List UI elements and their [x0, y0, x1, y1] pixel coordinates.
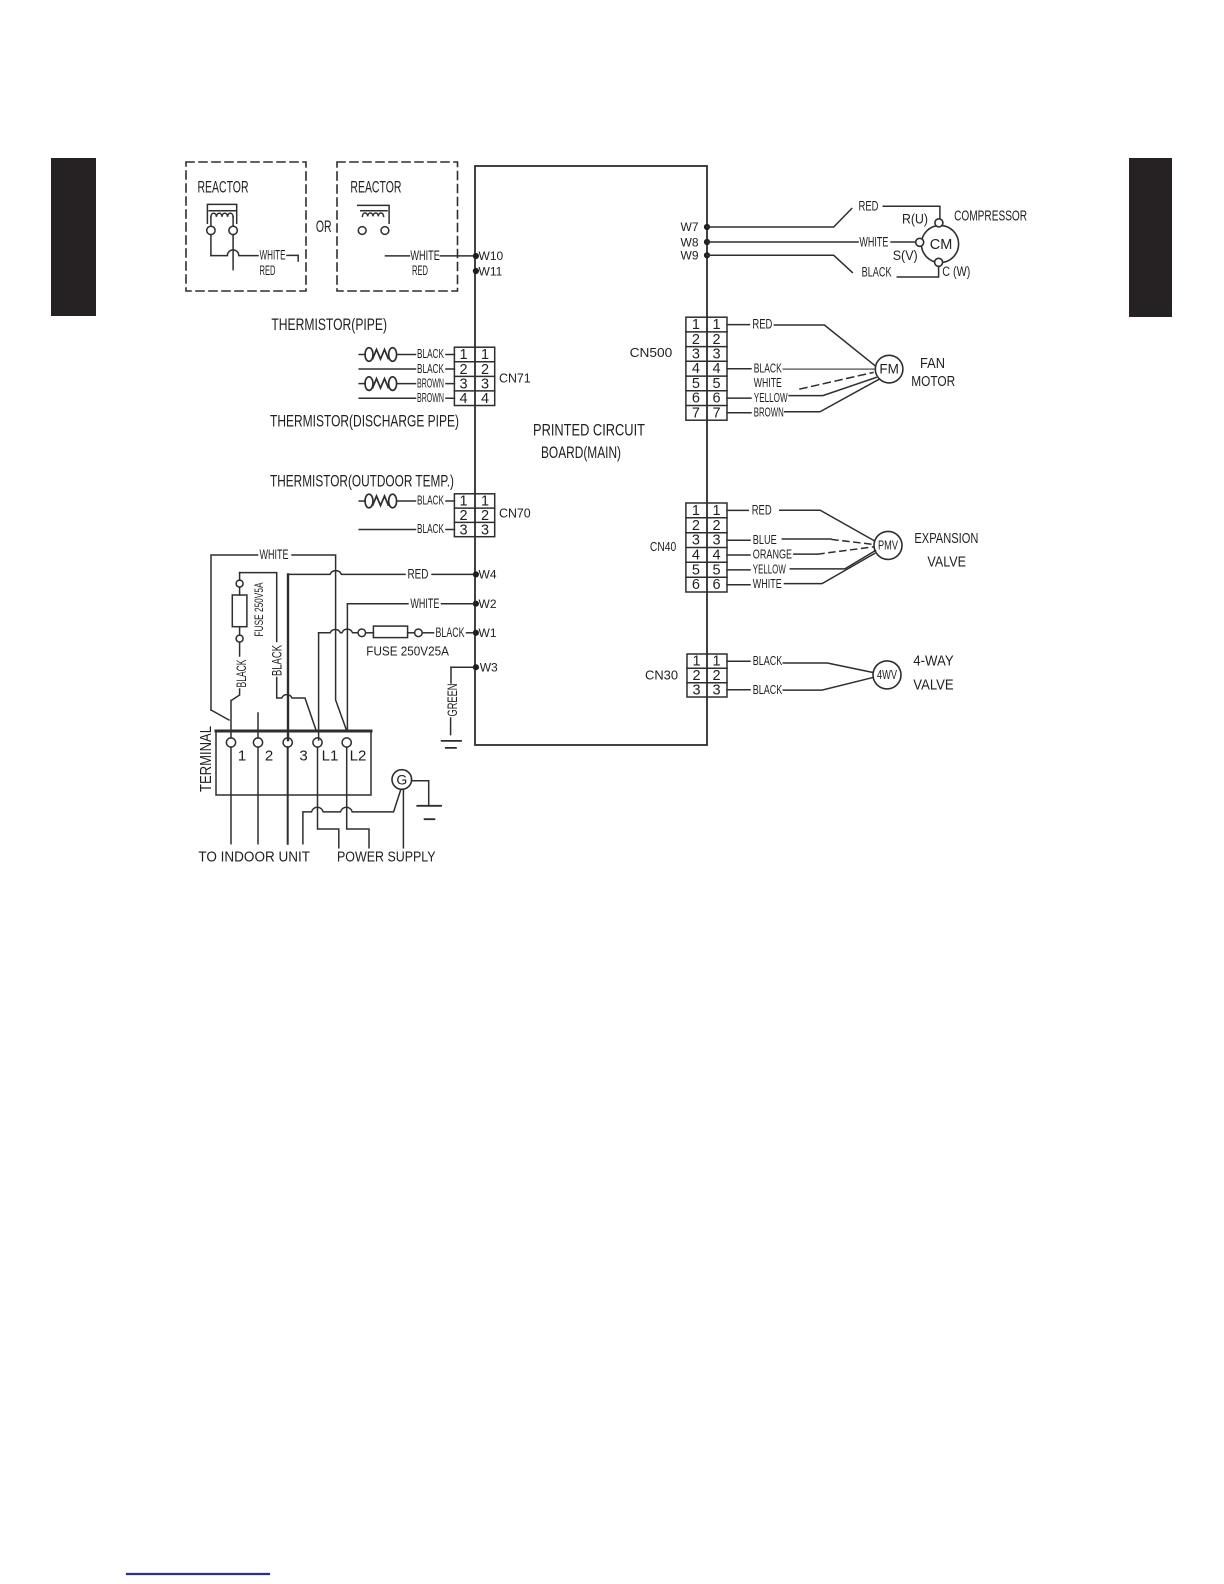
terminal screws	[226, 738, 351, 747]
svg-text:YELLOW: YELLOW	[754, 391, 788, 405]
wire W9 to compressor C	[707, 255, 852, 272]
svg-text:BOARD(MAIN): BOARD(MAIN)	[541, 444, 621, 462]
red wire to W4 with hop	[288, 571, 405, 575]
svg-text:BROWN: BROWN	[417, 391, 444, 405]
node W8	[681, 235, 711, 249]
svg-text:YELLOW: YELLOW	[753, 563, 786, 577]
svg-text:RED: RED	[752, 502, 772, 517]
terminal block	[216, 731, 371, 795]
svg-text:CN500: CN500	[630, 346, 673, 360]
wire W7 to compressor R	[707, 209, 852, 228]
svg-text:W10: W10	[479, 249, 504, 263]
svg-text:2: 2	[712, 332, 720, 348]
svg-text:BLACK: BLACK	[754, 362, 782, 376]
svg-text:REACTOR: REACTOR	[350, 179, 401, 197]
svg-text:2: 2	[692, 332, 700, 348]
black lead below fuse to terminal 1	[239, 642, 241, 656]
svg-text:BLACK: BLACK	[269, 645, 285, 676]
svg-text:2: 2	[481, 362, 489, 378]
G earth tap	[412, 781, 429, 806]
fan motor FM	[875, 355, 903, 383]
thermistor element row3 CN71	[359, 377, 415, 391]
reactor box 2	[337, 162, 458, 291]
svg-text:3: 3	[712, 347, 720, 363]
expansion valve PMV	[874, 531, 902, 559]
svg-text:L1: L1	[322, 748, 339, 765]
svg-text:BLUE: BLUE	[753, 533, 777, 547]
thermistor(outdoor temp.) label	[270, 473, 454, 491]
svg-text:WHITE: WHITE	[260, 547, 289, 562]
svg-text:G: G	[396, 772, 407, 788]
svg-text:3: 3	[712, 682, 720, 698]
svg-text:3: 3	[692, 347, 700, 363]
svg-text:CN40: CN40	[650, 540, 676, 554]
svg-text:THERMISTOR(OUTDOOR TEMP.): THERMISTOR(OUTDOOR TEMP.)	[270, 473, 454, 491]
svg-text:W11: W11	[479, 264, 503, 278]
thermistor(discharge pipe) label	[270, 413, 459, 431]
svg-text:W8: W8	[681, 235, 699, 249]
svg-text:4: 4	[481, 391, 489, 407]
wire row2 CN71	[359, 368, 415, 370]
svg-text:3: 3	[712, 533, 720, 549]
compressor CM	[916, 219, 959, 266]
node W4	[473, 568, 497, 582]
svg-text:L2: L2	[350, 748, 367, 765]
svg-text:W1: W1	[479, 626, 497, 640]
left margin black bar	[51, 158, 96, 316]
CN40 label	[650, 540, 676, 554]
white lead into terminal 1	[211, 710, 229, 720]
CN70 label	[499, 506, 531, 520]
svg-text:2: 2	[459, 362, 467, 378]
PCB label	[533, 422, 645, 463]
svg-text:CN70: CN70	[499, 506, 531, 520]
svg-text:WHITE: WHITE	[753, 577, 782, 591]
svg-text:BLACK: BLACK	[436, 625, 465, 640]
node W3	[473, 660, 498, 674]
wire below terminal 3	[287, 747, 289, 844]
svg-text:TO INDOOR UNIT: TO INDOOR UNIT	[198, 849, 310, 865]
svg-text:RED: RED	[412, 263, 428, 278]
svg-text:RED: RED	[859, 199, 879, 214]
CN30 label	[645, 669, 678, 683]
fuse 250V25A	[358, 626, 422, 638]
CN71 label	[499, 372, 531, 386]
svg-text:6: 6	[692, 391, 700, 407]
power supply line with hops	[303, 791, 401, 844]
terminal 2 stub	[257, 713, 259, 738]
svg-text:WHITE: WHITE	[410, 248, 439, 263]
right margin black bar	[1129, 158, 1172, 317]
svg-text:4-WAY: 4-WAY	[913, 654, 954, 670]
green wire W3 to earth	[451, 666, 473, 668]
svg-text:W2: W2	[479, 597, 497, 611]
svg-text:2: 2	[265, 748, 273, 765]
svg-text:4: 4	[712, 361, 720, 377]
svg-text:BROWN: BROWN	[417, 376, 444, 390]
wire below terminal 1	[230, 747, 232, 844]
node W1	[473, 626, 497, 640]
svg-text:6: 6	[712, 391, 720, 407]
svg-text:BLACK: BLACK	[417, 362, 444, 376]
svg-text:3: 3	[481, 376, 489, 392]
wire reactor 2 to W10	[386, 255, 410, 257]
svg-text:COMPRESSOR: COMPRESSOR	[954, 209, 1027, 225]
L1 riser	[318, 633, 320, 740]
svg-text:RED: RED	[260, 263, 276, 278]
node W2	[473, 597, 497, 611]
svg-text:R(U): R(U)	[902, 212, 928, 227]
svg-text:5: 5	[712, 562, 720, 578]
svg-text:5: 5	[712, 376, 720, 392]
earth ground symbol	[442, 741, 461, 748]
svg-text:2: 2	[692, 518, 700, 534]
thermistor element row1 CN70	[359, 494, 415, 508]
red wire terminal3 riser	[287, 574, 289, 740]
svg-text:3: 3	[692, 533, 700, 549]
svg-text:MOTOR: MOTOR	[911, 374, 955, 390]
connector CN71	[454, 347, 494, 405]
4-way valve 4WV	[873, 661, 901, 689]
wire below L2	[347, 747, 369, 848]
svg-text:5: 5	[692, 376, 700, 392]
svg-text:CN30: CN30	[645, 669, 678, 683]
svg-text:FAN: FAN	[920, 356, 945, 372]
svg-text:S(V): S(V)	[893, 248, 918, 263]
svg-text:4WV: 4WV	[877, 668, 897, 682]
svg-text:BLACK: BLACK	[753, 683, 783, 697]
node W11	[473, 264, 503, 278]
svg-text:W9: W9	[681, 249, 699, 263]
fuse 250V5A chain	[239, 573, 241, 581]
svg-text:WHITE: WHITE	[859, 234, 888, 249]
svg-text:RED: RED	[408, 567, 429, 582]
black wire W1 with two hops	[319, 629, 358, 633]
svg-text:1: 1	[481, 347, 489, 363]
svg-text:TERMINAL: TERMINAL	[198, 726, 215, 792]
CN71 wire color labels	[417, 347, 444, 405]
svg-text:FUSE 250V25A: FUSE 250V25A	[366, 645, 449, 659]
ground terminal G	[392, 770, 412, 790]
svg-text:WHITE: WHITE	[410, 596, 439, 611]
svg-text:EXPANSION: EXPANSION	[914, 531, 978, 547]
reactor box 1	[186, 162, 306, 291]
svg-text:3: 3	[459, 522, 467, 538]
connector CN40 expansion valve	[686, 503, 727, 592]
node W7	[681, 220, 711, 234]
svg-text:3: 3	[299, 748, 307, 765]
earth symbol	[417, 806, 441, 819]
svg-text:1: 1	[692, 503, 700, 519]
svg-text:FM: FM	[879, 362, 899, 377]
terminal 1 stub	[230, 701, 232, 739]
svg-text:BLACK: BLACK	[417, 494, 444, 508]
fan wires	[727, 324, 749, 326]
svg-text:POWER SUPPLY: POWER SUPPLY	[337, 850, 436, 866]
svg-text:BLACK: BLACK	[233, 659, 249, 687]
svg-text:GREEN: GREEN	[444, 684, 460, 717]
svg-text:RED: RED	[752, 317, 772, 332]
TERMINAL label	[198, 726, 215, 792]
node W10	[473, 249, 504, 263]
thermistor(pipe) label	[271, 316, 387, 334]
wire hook from reactor 1	[287, 255, 298, 261]
wire below terminal 2	[257, 747, 259, 844]
node W9	[681, 249, 711, 263]
svg-text:3: 3	[692, 682, 700, 698]
svg-text:VALVE: VALVE	[913, 677, 954, 693]
svg-text:7: 7	[692, 405, 700, 421]
svg-text:W4: W4	[479, 568, 497, 582]
svg-text:5: 5	[692, 562, 700, 578]
4-way valve wires	[727, 660, 750, 662]
svg-text:4: 4	[692, 548, 700, 564]
OR label	[316, 217, 332, 236]
svg-text:BLACK: BLACK	[753, 654, 783, 668]
black wire top link to fuse	[240, 573, 277, 642]
svg-text:BLACK: BLACK	[862, 264, 892, 279]
svg-text:ORANGE: ORANGE	[753, 548, 792, 562]
svg-text:PMV: PMV	[878, 539, 898, 553]
connector CN500 fan	[686, 317, 727, 420]
svg-text:CM: CM	[930, 237, 953, 253]
connector CN70	[454, 494, 494, 537]
svg-text:PRINTED CIRCUIT: PRINTED CIRCUIT	[533, 422, 645, 440]
wire row3 CN70	[359, 529, 415, 531]
svg-text:FUSE 250V5A: FUSE 250V5A	[252, 583, 266, 637]
svg-text:1: 1	[459, 347, 467, 363]
white wire terminal1 to L2 top run	[211, 555, 258, 710]
svg-text:VALVE: VALVE	[927, 555, 966, 571]
svg-text:BROWN: BROWN	[754, 406, 784, 420]
svg-text:W3: W3	[480, 660, 498, 674]
svg-text:CN71: CN71	[499, 372, 531, 386]
reactor L1 symbol	[207, 204, 258, 269]
CN71 stub dashes	[446, 355, 454, 399]
COMPRESSOR label	[954, 209, 1027, 225]
svg-text:4: 4	[712, 548, 720, 564]
CN70 wire color labels	[417, 494, 444, 537]
svg-text:OR: OR	[316, 217, 332, 236]
svg-text:6: 6	[712, 577, 720, 593]
thermistor element row1 CN71	[359, 348, 415, 362]
CN70 stub dashes	[446, 501, 454, 530]
svg-text:1: 1	[712, 317, 720, 333]
svg-text:6: 6	[692, 577, 700, 593]
svg-text:THERMISTOR(DISCHARGE PIPE): THERMISTOR(DISCHARGE PIPE)	[270, 413, 459, 431]
svg-text:C (W): C (W)	[942, 264, 970, 279]
svg-text:3: 3	[481, 522, 489, 538]
svg-text:3: 3	[459, 376, 467, 392]
svg-text:1: 1	[238, 748, 246, 765]
wire below L1	[318, 747, 339, 848]
TO INDOOR UNIT label	[198, 849, 310, 865]
terminal numbers	[238, 748, 367, 765]
reactor L2 symbol	[358, 205, 389, 234]
svg-text:4: 4	[459, 391, 467, 407]
expansion valve wires	[727, 509, 748, 511]
footer blue line	[127, 1573, 269, 1575]
svg-text:THERMISTOR(PIPE): THERMISTOR(PIPE)	[271, 316, 387, 334]
CN500 label	[630, 346, 673, 360]
svg-text:1: 1	[692, 317, 700, 333]
svg-text:REACTOR: REACTOR	[198, 179, 249, 197]
reactor 1 lead labels WHITE / RED	[260, 248, 286, 278]
svg-text:WHITE: WHITE	[754, 376, 782, 390]
svg-text:W7: W7	[681, 220, 699, 234]
svg-text:BLACK: BLACK	[417, 347, 444, 361]
svg-text:BLACK: BLACK	[417, 522, 444, 536]
svg-text:WHITE: WHITE	[260, 248, 286, 263]
white wire W2 to L2	[346, 604, 348, 731]
wire W8 to compressor S	[707, 241, 858, 243]
svg-text:7: 7	[712, 405, 720, 421]
G lead down	[402, 789, 404, 848]
POWER SUPPLY label	[337, 850, 436, 866]
PCB main board outline	[475, 166, 707, 745]
wire row4 CN71	[359, 397, 415, 399]
svg-text:2: 2	[712, 518, 720, 534]
svg-text:4: 4	[692, 361, 700, 377]
connector CN30 4-way valve	[687, 654, 727, 697]
svg-text:1: 1	[712, 503, 720, 519]
